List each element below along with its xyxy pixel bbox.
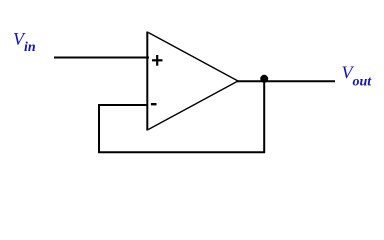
wire: feedback bottom horizontal segment: [98, 151, 265, 153]
wire: output wire: [237, 80, 335, 82]
+ (non-inverting input marker): [152, 55, 163, 66]
svg-text:Vout: Vout: [342, 63, 373, 90]
wire: feedback right vertical segment up to output node: [263, 80, 265, 153]
svg-text:Vin: Vin: [13, 29, 36, 55]
op-amp U1 triangle body: [147, 32, 238, 131]
node: output junction dot: [260, 75, 268, 83]
- (inverting input marker): [151, 103, 157, 105]
wire: Vin input wire to non-inverting input: [54, 57, 149, 59]
wire: feedback left vertical segment: [98, 104, 100, 153]
wire: inverting input wire: [98, 104, 148, 106]
